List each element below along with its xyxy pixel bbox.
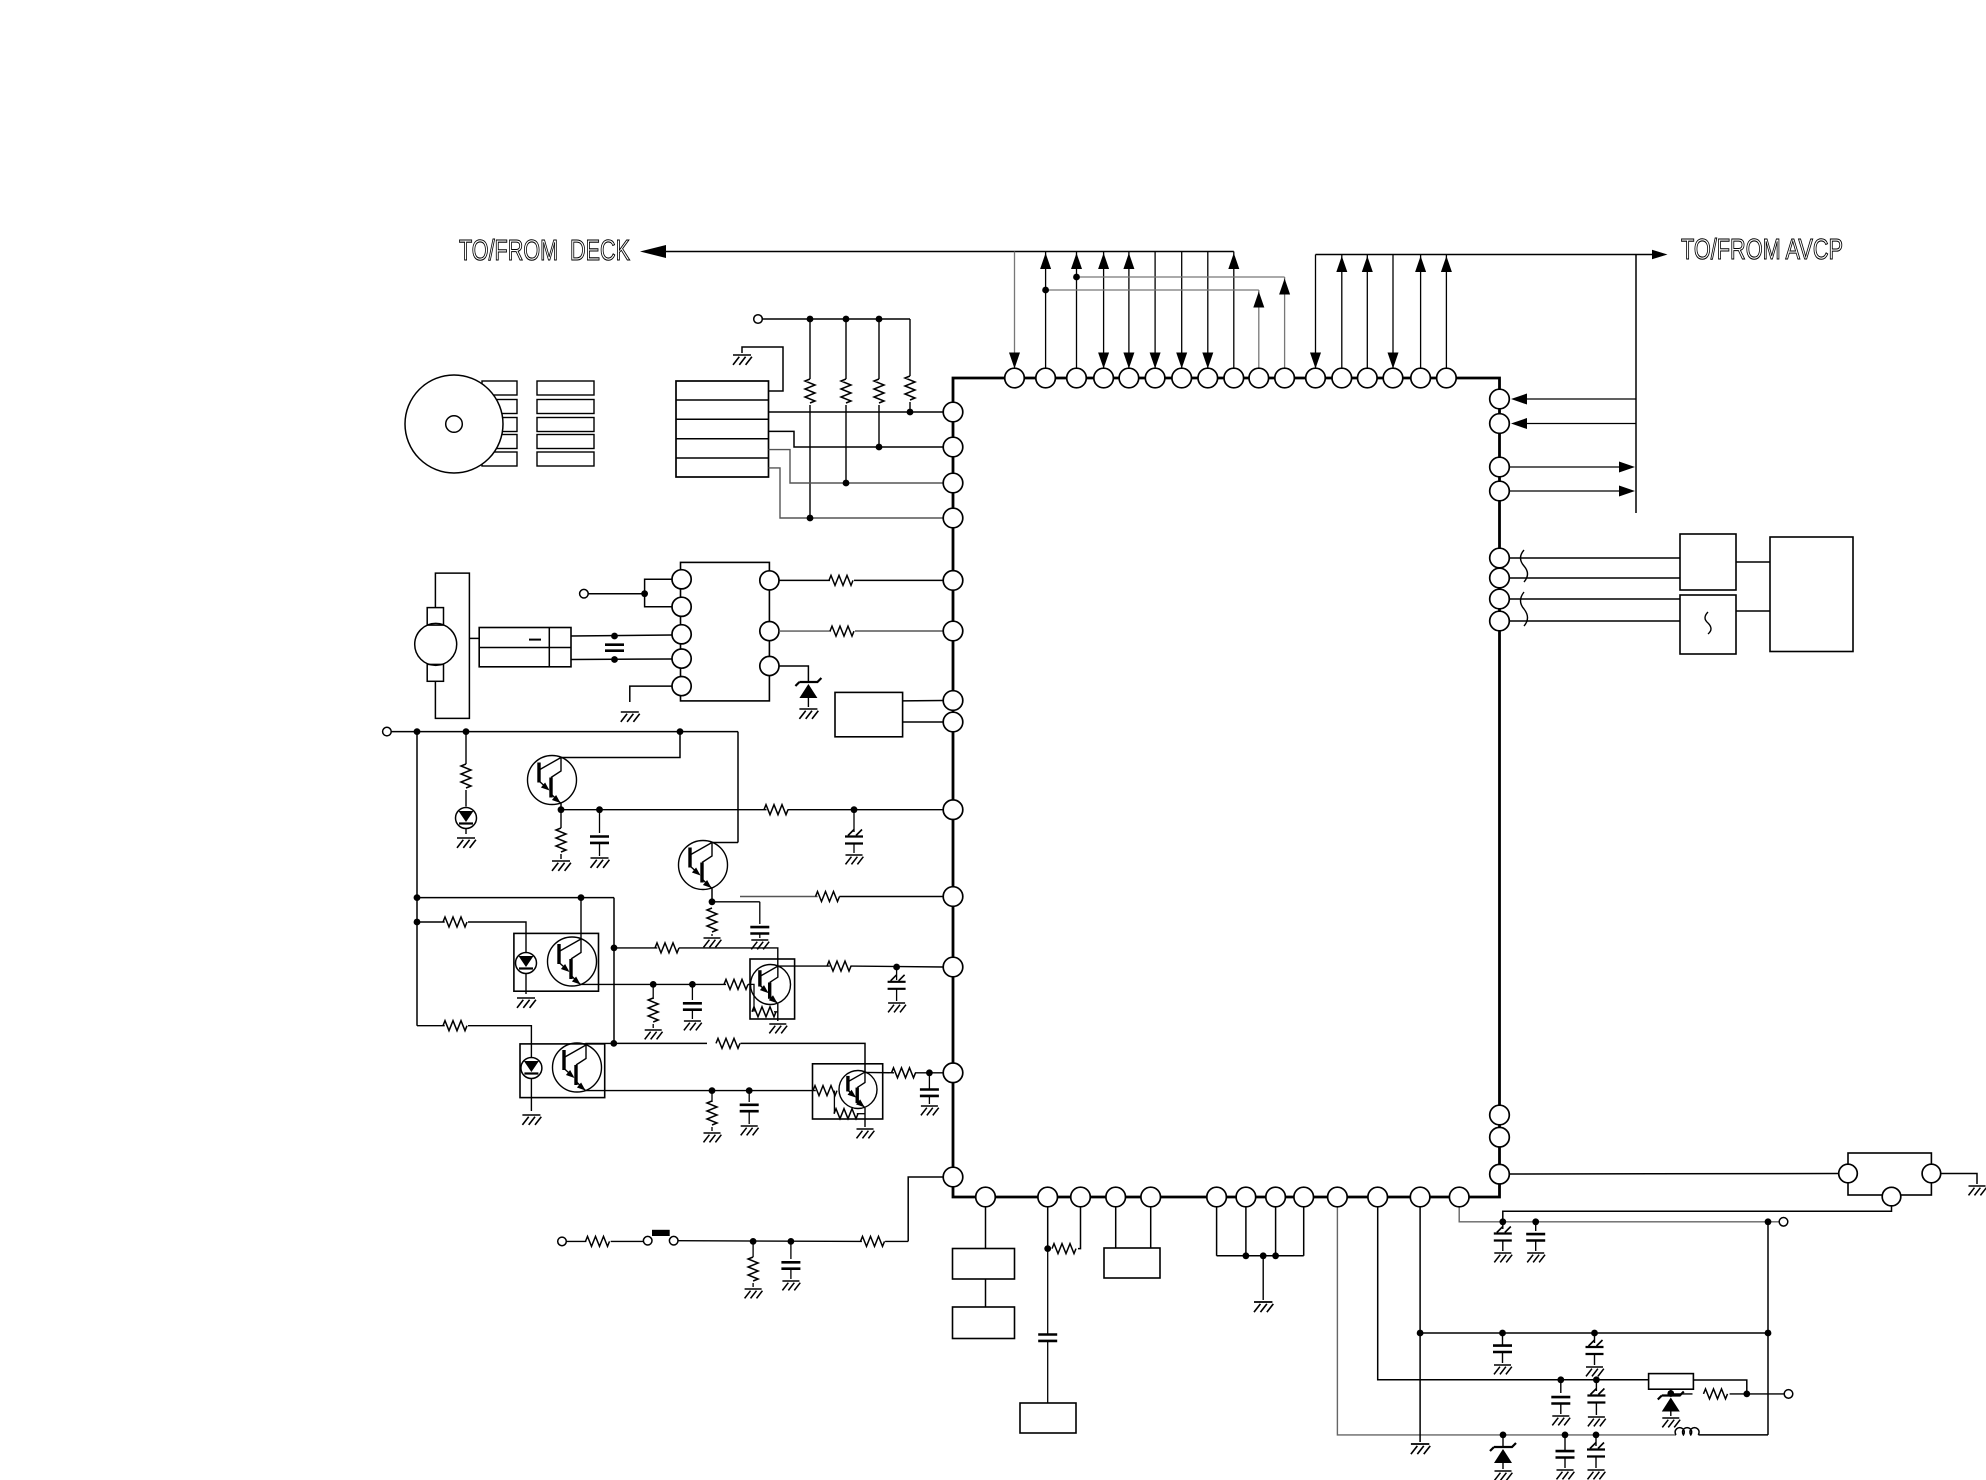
- svg-text:TO/FROM DECK: TO/FROM DECK: [459, 235, 630, 267]
- svg-text:TO/FROM AVCP: TO/FROM AVCP: [1681, 234, 1843, 266]
